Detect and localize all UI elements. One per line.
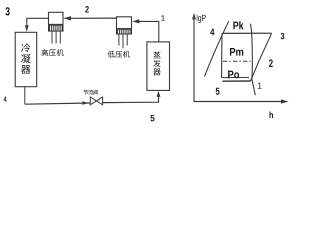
HP compressor 高压机 symbol [49,12,64,24]
cycle top line 4-3 at Pk [223,32,272,34]
node 2 label [85,6,89,12]
Pm label [230,48,243,56]
Pm dash-dot level line [223,60,251,62]
Po label [228,71,239,79]
point 2 label [269,59,273,67]
wire throttle valve to evaporator (line 5) [103,97,159,103]
condenser label 冷凝器 [21,43,30,52]
node 1 label [161,15,164,21]
Pk label [233,21,243,29]
arrow into condenser top [25,25,29,32]
condenser vessel [15,32,37,86]
point 3 label [281,33,285,39]
compression line 1-2-3 [251,33,272,81]
node 3 label [5,7,9,15]
arrow into evaporator bottom [157,91,161,97]
wire LP compressor to HP compressor (line 2) [71,17,117,19]
point 5 label [216,88,220,95]
cycle bottom evaporation line 5-1 [222,76,250,78]
wire condenser to throttle valve (line 4) [25,103,91,104]
HP compressor legs [51,31,53,43]
wire HP compressor outlet to condenser (line 3) [27,18,49,25]
y axis (lgP) [193,15,195,102]
node 5 label [150,115,154,121]
saturation dome right branch [250,24,255,96]
throttle valve label 节流阀 [83,90,88,95]
HP compressor label 高压机 [42,49,48,56]
h axis label [270,111,273,118]
cycle throttle line 4-5 [221,33,224,77]
x axis (h) [194,101,282,103]
Po level line [222,80,250,82]
LP compressor legs [118,34,120,46]
throttle valve (bowtie) [90,97,96,105]
evaporator vessel [147,42,170,91]
evaporator label 蒸发器 [153,52,160,59]
point 4 label [210,29,214,36]
lgP axis label [197,14,206,22]
point 1 label [258,83,262,89]
LP compressor label 低压机 [108,51,115,58]
wire condenser outlet down [24,87,26,105]
saturation dome left branch [205,21,229,76]
node 4 label [4,97,7,102]
wire evaporator to LP compressor (line 1) [139,21,159,42]
flow arrow on line 4 [82,101,88,105]
LP compressor 低压机 symbol [117,17,132,29]
